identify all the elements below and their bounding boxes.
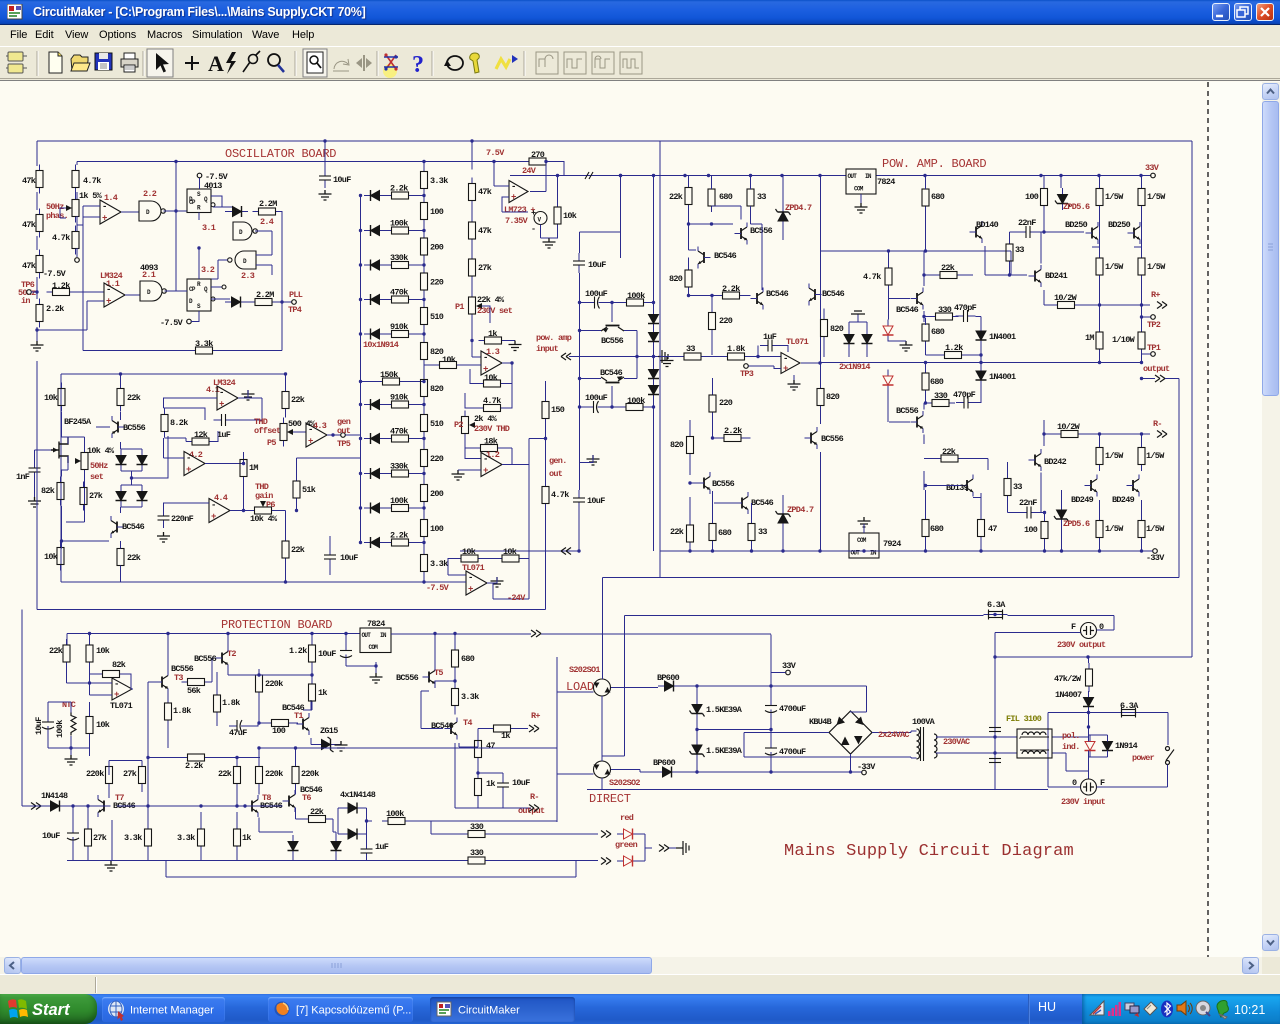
wire	[83, 350, 282, 352]
tray icon bluetooth	[1161, 1001, 1173, 1018]
nand gate 4093 2.1	[140, 281, 166, 301]
wire ladder bus	[360, 196, 362, 544]
wire	[391, 633, 771, 635]
wiper arrow	[75, 458, 81, 464]
resistor 2.2k	[386, 192, 415, 199]
toolbar scope buttons disabled	[536, 52, 642, 74]
svg-text:P5: P5	[267, 438, 276, 448]
ground bar	[851, 311, 865, 314]
svg-text:TP1: TP1	[1147, 343, 1161, 353]
svg-text:10k: 10k	[96, 720, 110, 730]
svg-text:220k: 220k	[265, 679, 283, 689]
junction	[174, 209, 177, 212]
wire THD bottom	[61, 581, 466, 583]
svg-text:1.4: 1.4	[104, 193, 118, 203]
resistor 4.7k	[478, 405, 507, 412]
svg-text:ZPD5.6: ZPD5.6	[1063, 202, 1090, 212]
resistor 22k	[282, 386, 289, 415]
junction	[887, 249, 890, 252]
junction	[146, 804, 149, 807]
wiper arrow	[260, 501, 266, 507]
capacitor 10uF	[573, 253, 585, 273]
wire	[423, 473, 425, 479]
svg-text:10uF: 10uF	[333, 175, 351, 185]
svg-text:2.1: 2.1	[142, 270, 156, 280]
svg-text:-: -	[102, 202, 107, 212]
toolbar icon new file	[49, 52, 62, 73]
diode 1N914	[364, 260, 386, 271]
svg-text:330k: 330k	[390, 253, 408, 263]
wire	[198, 248, 200, 279]
wire	[258, 669, 260, 675]
svg-text:22k: 22k	[291, 545, 305, 555]
svg-text:2.2M: 2.2M	[256, 290, 274, 300]
svg-text:BC556: BC556	[712, 479, 735, 489]
svg-text:1.8k: 1.8k	[173, 706, 191, 716]
svg-text:47k: 47k	[22, 220, 36, 230]
junction	[695, 728, 698, 731]
svg-text:S202SO2: S202SO2	[609, 778, 640, 788]
transformer secondary winding	[917, 729, 920, 759]
resistor 820	[687, 431, 694, 460]
connector led1	[601, 831, 611, 838]
svg-text:+: +	[511, 193, 516, 203]
wire	[120, 541, 122, 582]
junction	[226, 632, 229, 635]
horizontal scrollbar left arrow	[4, 957, 21, 974]
svg-text:BD250: BD250	[1108, 220, 1131, 230]
wire	[120, 374, 122, 420]
resistor 470k	[386, 296, 415, 303]
resistor 1/5W	[1138, 442, 1145, 471]
wire	[293, 431, 306, 433]
ground	[319, 190, 332, 200]
svg-text:100: 100	[430, 524, 444, 534]
wire	[924, 458, 988, 460]
junction	[979, 361, 982, 364]
wire	[1010, 212, 1085, 233]
resistor 4.7k	[72, 165, 79, 194]
wire	[923, 471, 925, 490]
wire	[924, 316, 981, 318]
wire	[471, 245, 473, 253]
resistor 820	[421, 374, 428, 403]
connector led2	[601, 858, 611, 865]
wire left border	[21, 610, 23, 807]
resistor 680	[922, 514, 929, 543]
wire	[31, 291, 37, 293]
resistor 18k	[475, 445, 504, 452]
resistor 330	[462, 857, 491, 864]
wire	[1044, 176, 1142, 189]
resistor 330	[462, 831, 491, 838]
svg-text:D: D	[239, 229, 243, 236]
transistor BC556	[805, 427, 818, 449]
junction	[610, 301, 613, 304]
wire	[61, 506, 63, 549]
svg-text:BD139: BD139	[946, 483, 969, 493]
junction	[422, 332, 425, 335]
resistor 82k	[57, 477, 64, 506]
wire	[926, 402, 982, 405]
start button	[0, 994, 97, 1024]
svg-text:10k: 10k	[44, 552, 58, 562]
junction	[780, 174, 783, 177]
junction	[344, 632, 347, 635]
svg-text:100: 100	[1024, 525, 1038, 535]
junction	[88, 681, 91, 684]
wire	[423, 296, 425, 302]
diode 1N914	[226, 206, 248, 217]
svg-text:power: power	[1132, 753, 1155, 763]
transistor BC546	[111, 516, 124, 538]
windows flag	[8, 999, 28, 1018]
wire	[471, 141, 473, 170]
svg-text:BC556: BC556	[601, 336, 624, 346]
wire	[327, 434, 341, 436]
junction	[294, 746, 297, 749]
ground left column	[31, 341, 44, 351]
resistor 27k	[139, 761, 146, 790]
diode 1N914	[364, 468, 386, 479]
svg-text:12k: 12k	[194, 430, 208, 440]
resistor 4.7k	[542, 481, 549, 510]
capacitor 470pF	[956, 397, 976, 409]
svg-text:R+: R+	[531, 711, 540, 721]
junction	[422, 160, 425, 163]
resistor 680	[708, 183, 715, 212]
junction	[374, 664, 377, 667]
svg-text:47uF: 47uF	[229, 728, 247, 738]
filter FIL 3100	[1017, 729, 1052, 758]
junction	[769, 684, 772, 687]
resistor 47	[978, 514, 985, 543]
resistor 3.3k	[421, 549, 428, 578]
junction	[1098, 303, 1101, 306]
resistor 820	[685, 264, 692, 293]
svg-text:100k: 100k	[627, 291, 645, 301]
terminal -7.5V	[197, 173, 202, 178]
wire	[973, 493, 981, 498]
svg-text:input: input	[536, 344, 559, 354]
wire mid node	[1100, 362, 1142, 364]
ground	[509, 341, 522, 351]
resistor 47k/2W	[1086, 663, 1093, 692]
transistor T4 BC546	[445, 718, 458, 740]
capacitor 100uF	[586, 401, 606, 413]
terminal TP3	[744, 364, 749, 369]
resistor 1.2k	[47, 289, 76, 296]
svg-text:ZG15: ZG15	[320, 726, 338, 736]
wire	[1040, 473, 1042, 513]
diode bias 1N914	[648, 363, 659, 385]
flip-flop 4013 3.1	[187, 189, 215, 213]
svg-text:22k: 22k	[310, 807, 324, 817]
junction	[69, 746, 72, 749]
transistor T7 BC546	[98, 795, 111, 817]
svg-text:47k: 47k	[478, 187, 492, 197]
wire filter links	[1052, 737, 1089, 771]
svg-text:820: 820	[669, 274, 683, 284]
wire	[423, 195, 425, 197]
junction	[610, 405, 613, 408]
wire	[423, 261, 425, 267]
transistor BC556	[112, 416, 125, 438]
wire	[71, 748, 90, 755]
svg-text:1/5W: 1/5W	[1105, 192, 1124, 202]
junction	[199, 804, 202, 807]
svg-text:1M: 1M	[1085, 333, 1094, 343]
svg-text:1.8k: 1.8k	[727, 344, 745, 354]
resistor 10/2W	[1055, 431, 1084, 438]
meter V 7.35V	[534, 212, 547, 225]
wire	[176, 290, 187, 292]
resistor 10k	[554, 201, 561, 230]
resistor 27k	[85, 823, 92, 852]
ground	[491, 577, 504, 587]
diode 1N914	[364, 503, 386, 514]
diode 1N914	[116, 485, 127, 507]
svg-text:4.7k: 4.7k	[83, 176, 101, 186]
svg-text:1N4007: 1N4007	[1055, 690, 1082, 700]
svg-text:100k: 100k	[390, 219, 408, 229]
svg-text:ind.: ind.	[1062, 742, 1080, 752]
diode 1N4148	[331, 835, 342, 857]
svg-text:4013: 4013	[204, 181, 222, 191]
wire	[211, 658, 216, 682]
svg-text:-: -	[219, 388, 224, 398]
toolbar arrow tool pressed	[147, 49, 173, 77]
svg-text:BD249: BD249	[1071, 495, 1094, 505]
svg-text:230V input: 230V input	[1061, 797, 1106, 807]
junction	[619, 174, 622, 177]
svg-text:3.3k: 3.3k	[124, 833, 142, 843]
svg-text:2.2k: 2.2k	[390, 531, 408, 541]
plug 230V output	[1081, 623, 1097, 639]
wire bottom mains	[587, 789, 1048, 791]
svg-text:+: +	[106, 297, 111, 307]
transistor T8 BC546	[246, 795, 259, 817]
wire	[281, 212, 284, 303]
wire	[366, 858, 368, 861]
svg-text:22k: 22k	[941, 263, 955, 273]
transistor BC546	[601, 377, 624, 407]
resistor 4.7k	[72, 226, 79, 255]
resistor 2.2M	[249, 299, 278, 306]
wire	[455, 743, 531, 808]
svg-text:10/2W: 10/2W	[1057, 422, 1081, 432]
resistor 510	[421, 409, 428, 438]
resistor 10k	[86, 639, 93, 668]
svg-text:1k: 1k	[501, 731, 510, 741]
terminal TP2	[1151, 315, 1156, 320]
svg-text:220k: 220k	[301, 769, 319, 779]
svg-text:33V: 33V	[782, 661, 797, 671]
resistor 47	[475, 735, 482, 764]
wire	[36, 236, 38, 250]
resistor 2.2k	[386, 539, 415, 546]
svg-text:470pF: 470pF	[953, 390, 976, 400]
svg-text:output: output	[518, 806, 545, 816]
svg-text:-33V: -33V	[857, 762, 876, 772]
svg-text:gen.: gen.	[549, 456, 567, 466]
resistor 3.3k	[421, 166, 428, 195]
svg-text:BC556: BC556	[821, 434, 844, 444]
svg-text:pow. amp: pow. amp	[536, 333, 572, 343]
svg-text:47k: 47k	[22, 176, 36, 186]
junction	[652, 355, 655, 358]
wire	[332, 819, 337, 835]
nand gate 4093 2.2	[139, 201, 165, 221]
wire	[259, 818, 293, 833]
wire	[448, 559, 466, 576]
wire	[494, 162, 509, 187]
resistor 220k	[256, 761, 263, 790]
svg-text:TL071: TL071	[110, 701, 133, 711]
svg-text:2.2: 2.2	[143, 189, 157, 199]
transistor BD140	[970, 221, 983, 243]
junction	[924, 401, 927, 404]
wire long mid	[820, 362, 1142, 364]
svg-text:2.2M: 2.2M	[259, 199, 277, 209]
ground	[242, 390, 255, 400]
horizontal scrollbar thumb	[21, 957, 652, 974]
toolbar zoom tool	[268, 54, 284, 72]
svg-text:BC546: BC546	[600, 368, 623, 378]
svg-text:680: 680	[461, 654, 475, 664]
wire	[167, 693, 169, 749]
resistor 220k	[292, 761, 299, 790]
resistor 47k	[469, 216, 476, 245]
op-amp LM324 1.4	[100, 200, 121, 224]
junction	[235, 804, 238, 807]
fuse 6.3A	[984, 610, 1008, 620]
op-amp LM324 4.3	[306, 423, 327, 447]
wire	[415, 264, 425, 266]
wire	[770, 686, 772, 772]
junction	[710, 294, 713, 297]
junction	[310, 632, 313, 635]
svg-text:F: F	[1071, 622, 1076, 632]
junction	[359, 263, 362, 266]
toolbar icon print	[121, 53, 138, 72]
junction	[359, 437, 362, 440]
resistor 220	[709, 307, 716, 336]
svg-text:330k: 330k	[390, 462, 408, 472]
wire	[714, 502, 736, 504]
svg-text:820: 820	[830, 324, 844, 334]
led polarity indicator	[1085, 735, 1096, 757]
wire	[211, 298, 230, 300]
resistor 51k	[293, 475, 300, 504]
tray icon green	[1217, 1001, 1228, 1020]
horizontal scrollbar right arrow	[1242, 957, 1259, 974]
wire	[89, 634, 91, 677]
transistor BC546	[736, 492, 749, 514]
junction	[470, 339, 473, 342]
wire	[285, 511, 287, 583]
diode 1N4001	[976, 325, 987, 347]
svg-text:4.7k: 4.7k	[551, 490, 569, 500]
resistor 22k	[234, 761, 241, 790]
resistor 820	[817, 383, 824, 412]
diode bias 1N914	[648, 379, 659, 401]
wire	[926, 347, 982, 355]
junction	[707, 174, 710, 177]
junction	[1059, 174, 1062, 177]
junction	[422, 541, 425, 544]
wire	[579, 273, 581, 490]
wire triac gate column	[556, 657, 558, 822]
wire	[455, 581, 466, 583]
wire	[284, 373, 286, 375]
wire	[76, 216, 78, 232]
wire	[688, 258, 690, 297]
wire op-amp 4.1 net	[164, 398, 218, 420]
junction	[359, 229, 362, 232]
capacitor 220nF	[158, 508, 170, 528]
toolbar icon save floppy	[95, 53, 112, 70]
junction	[619, 174, 622, 177]
svg-text:BC546: BC546	[122, 522, 145, 532]
wire	[713, 378, 751, 438]
transistor T3 BC556	[156, 671, 169, 693]
resistor 12k	[186, 438, 215, 445]
resistor 3.3k	[452, 683, 459, 712]
svg-text:-: -	[783, 354, 788, 364]
wire	[424, 364, 481, 366]
wire	[423, 543, 425, 549]
tray icon graph	[1090, 1001, 1104, 1015]
svg-text:-: -	[1018, 735, 1021, 742]
svg-text:+: +	[468, 585, 473, 595]
wire	[761, 260, 763, 290]
resistor 220k	[106, 761, 113, 790]
wire	[471, 207, 473, 217]
resistor 22k	[687, 519, 694, 548]
wire	[375, 666, 377, 673]
zener diode ZPD5.6	[1055, 188, 1070, 210]
svg-text:10k: 10k	[442, 355, 456, 365]
resistor 1.8k	[165, 697, 172, 726]
svg-text:2.3: 2.3	[241, 271, 255, 281]
junction	[476, 771, 479, 774]
wire	[48, 702, 90, 748]
wire	[995, 656, 1192, 658]
svg-text:-: -	[308, 425, 313, 435]
resistor 1k 5% trimmer	[72, 194, 79, 223]
svg-text:910k: 910k	[390, 322, 408, 332]
junction	[35, 328, 38, 331]
filter coil bottom	[1022, 751, 1046, 754]
diode 1N914	[364, 399, 386, 410]
junction	[422, 263, 425, 266]
wire	[423, 508, 425, 514]
junction	[470, 139, 473, 142]
svg-text:230V set: 230V set	[477, 306, 513, 316]
transistor BC556	[601, 303, 624, 332]
wire feedback 10k	[470, 363, 512, 384]
wire	[205, 452, 244, 464]
area right of page boundary	[1209, 82, 1262, 957]
svg-text:230V output: 230V output	[1057, 640, 1106, 650]
transil 1.5KE39A	[690, 698, 705, 720]
wire	[423, 162, 425, 166]
resistor 1.2k	[939, 352, 968, 359]
diode 1N914	[844, 328, 855, 350]
wire	[37, 301, 104, 330]
wire	[165, 290, 188, 292]
